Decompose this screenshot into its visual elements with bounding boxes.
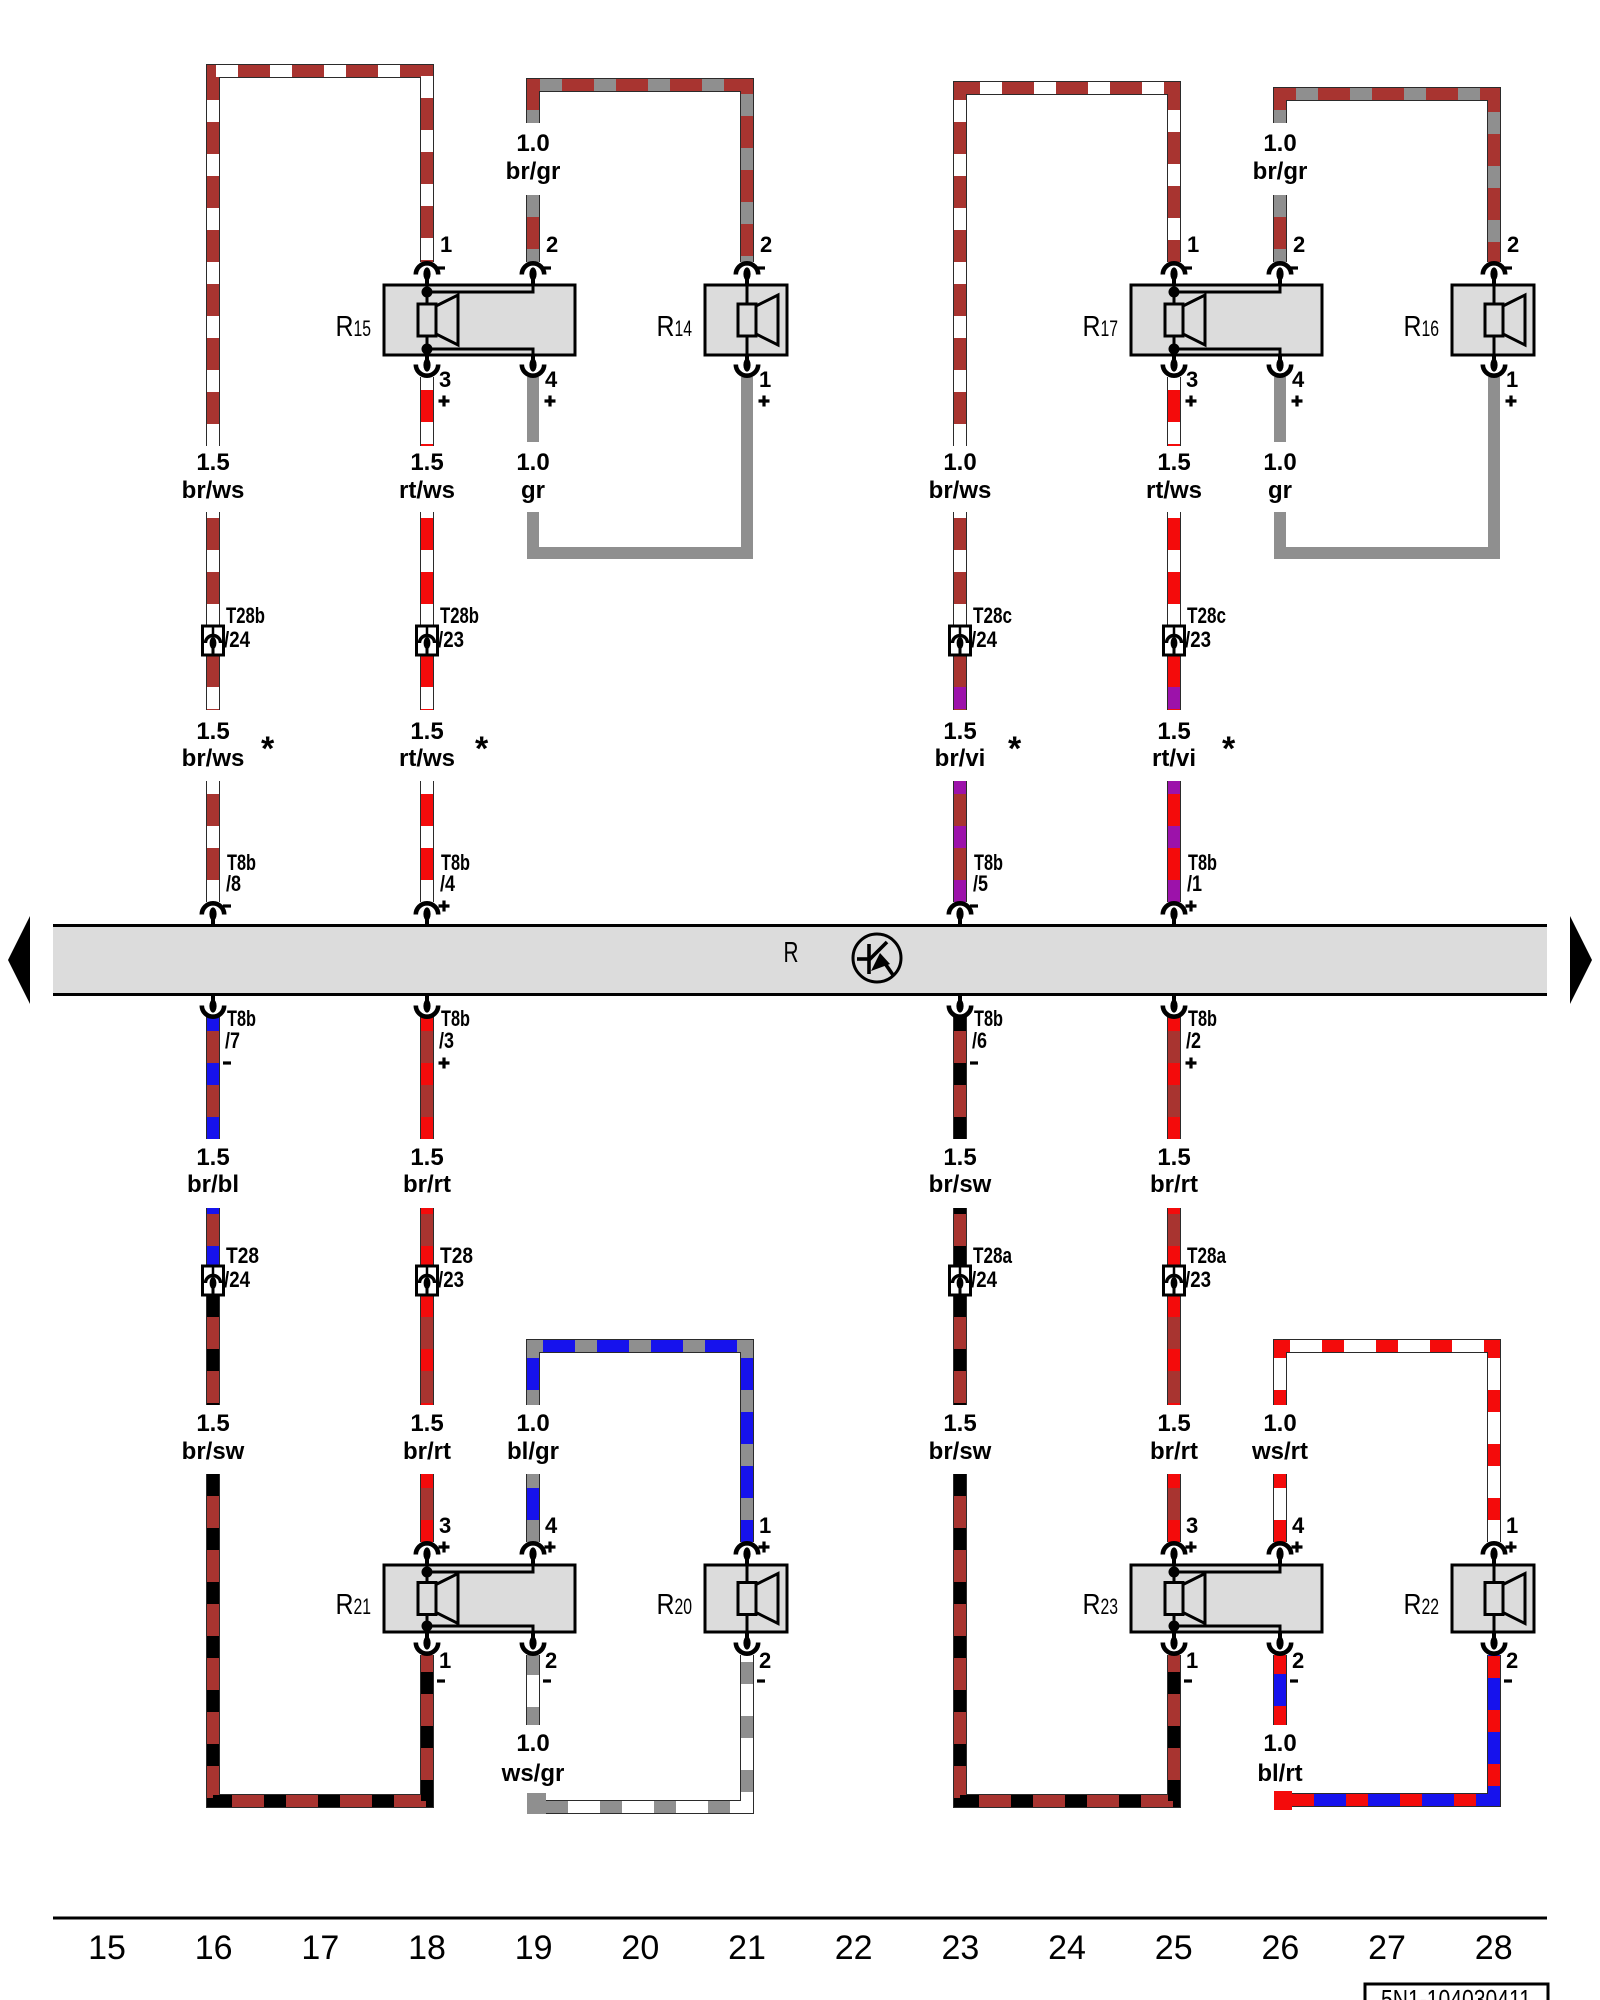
wire br/ws loop from R17 pin1 <box>960 88 1174 446</box>
part number box <box>1365 1984 1548 2000</box>
svg-text:1.5: 1.5 <box>1157 1410 1190 1437</box>
svg-text:21: 21 <box>728 1929 766 1967</box>
R17 pin 4 <box>1269 354 1291 376</box>
R15 pin 2 <box>522 263 544 286</box>
svg-text:br/ws: br/ws <box>929 477 992 504</box>
wire bl/rt loop to R22 pin2 <box>1276 1655 1494 1800</box>
inline connector T28b/23 <box>417 626 438 655</box>
svg-text:1: 1 <box>440 232 452 257</box>
wire br/bl below bus <box>206 1017 220 1139</box>
wire br/bl to T28 <box>206 1208 220 1266</box>
wire rt/ws mid upper <box>420 512 434 626</box>
R23 pin 2 <box>1269 1631 1291 1654</box>
svg-text:/6: /6 <box>972 1028 987 1053</box>
speaker R14 box <box>705 285 787 355</box>
speaker R23 box <box>1131 1565 1322 1632</box>
svg-text:gr: gr <box>521 477 545 504</box>
R16 pin 2 sign <box>1504 266 1512 269</box>
bus pin T8b/5 sign <box>970 904 978 907</box>
wire br/sw U to R21 pin1 <box>213 1474 427 1801</box>
R15 pin 1 sign <box>437 266 445 269</box>
svg-text:br/vi: br/vi <box>935 745 986 772</box>
svg-text:1.5: 1.5 <box>410 1144 443 1171</box>
wire br/sw to T28a <box>953 1208 967 1266</box>
svg-text:5N1-104030411: 5N1-104030411 <box>1381 1984 1531 2000</box>
wire rt/vi to bus <box>1167 781 1181 902</box>
R20 pin 2 sign <box>757 1679 765 1682</box>
wire gr R15 pin4 down <box>527 377 539 442</box>
wire br/gr top left loop <box>533 85 747 262</box>
svg-text:1.5: 1.5 <box>196 449 229 476</box>
R23 pin 2 sign <box>1290 1679 1298 1682</box>
svg-text:T28c: T28c <box>1187 603 1226 628</box>
R21 pin 2 <box>522 1631 544 1654</box>
svg-text:*: * <box>1008 730 1022 768</box>
wire br/rt below bus right <box>1167 1017 1181 1139</box>
svg-text:1.0: 1.0 <box>1263 449 1296 476</box>
R23 pin 3 <box>1163 1543 1185 1566</box>
svg-text:/24: /24 <box>224 1267 251 1292</box>
inline connector T28a/24 <box>950 1266 971 1295</box>
inline connector T28/23 <box>417 1266 438 1295</box>
svg-text:R17: R17 <box>1083 311 1119 343</box>
svg-text:gr: gr <box>1268 477 1292 504</box>
svg-text:rt/ws: rt/ws <box>399 745 455 772</box>
svg-text:1.5: 1.5 <box>1157 449 1190 476</box>
wire br/sw below T28 <box>206 1295 220 1405</box>
svg-text:3: 3 <box>1186 1513 1198 1538</box>
svg-text:/24: /24 <box>971 627 998 652</box>
wire br/ws right mid upper <box>953 512 967 626</box>
svg-text:T28b: T28b <box>226 603 265 628</box>
inline connector T28a/23 <box>1164 1266 1185 1295</box>
svg-text:/7: /7 <box>225 1028 240 1053</box>
svg-text:26: 26 <box>1261 1929 1299 1967</box>
wire br/rt below bus <box>420 1017 434 1139</box>
R17 pin 3 sign <box>1186 396 1197 407</box>
svg-text:R: R <box>784 937 799 969</box>
speaker R15 box <box>384 285 575 355</box>
svg-text:2: 2 <box>545 1648 557 1673</box>
R17 pin 3 <box>1163 354 1185 376</box>
R16 pin 2 <box>1483 263 1505 286</box>
svg-text:4: 4 <box>545 367 558 392</box>
svg-text:T28a: T28a <box>973 1243 1013 1268</box>
right edge arrow <box>1570 916 1592 1004</box>
speaker R22 box <box>1452 1565 1534 1632</box>
svg-text:br/bl: br/bl <box>187 1171 239 1198</box>
svg-text:3: 3 <box>1186 367 1198 392</box>
svg-text:ws/rt: ws/rt <box>1251 1438 1308 1465</box>
bus pin T8b/3 sign <box>439 1058 450 1069</box>
wire ws/gr loop to R20 pin2 <box>529 1655 747 1807</box>
wire rt/vi mid lower <box>1167 655 1181 710</box>
wire br/ws mid upper <box>206 512 220 626</box>
R23 pin 1 sign <box>1184 1679 1192 1682</box>
wire br/gr label to R15 pin2 <box>526 195 540 262</box>
bl/rt corner cap <box>1274 1791 1292 1810</box>
svg-text:/5: /5 <box>973 871 988 896</box>
svg-text:/4: /4 <box>440 871 456 896</box>
svg-text:1.0: 1.0 <box>516 449 549 476</box>
wire br/rt to R23 pin3 <box>1167 1474 1181 1542</box>
wire rt/ws mid lower <box>420 655 434 710</box>
R17 pin 2 sign <box>1290 266 1298 269</box>
svg-text:1.5: 1.5 <box>410 1410 443 1437</box>
svg-text:T28b: T28b <box>440 603 479 628</box>
speaker R17 box <box>1131 285 1322 355</box>
R23 pin 3 sign <box>1186 1542 1197 1553</box>
svg-text:1: 1 <box>759 367 771 392</box>
svg-text:br/sw: br/sw <box>182 1438 245 1465</box>
R16 pin 1 <box>1483 354 1505 376</box>
svg-text:16: 16 <box>195 1929 233 1967</box>
R14 pin 2 sign <box>757 266 765 269</box>
R23 pin 4 <box>1269 1543 1291 1566</box>
svg-text:1: 1 <box>759 1513 771 1538</box>
svg-text:rt/ws: rt/ws <box>1146 477 1202 504</box>
svg-text:*: * <box>475 730 489 768</box>
wire br/rt below T28a <box>1167 1295 1181 1405</box>
left edge arrow <box>8 916 30 1004</box>
bus pin T8b/2 sign <box>1186 1058 1197 1069</box>
svg-text:2: 2 <box>1292 1648 1304 1673</box>
svg-text:23: 23 <box>941 1929 979 1967</box>
svg-text:4: 4 <box>1292 367 1305 392</box>
R17 pin 1 <box>1163 263 1185 286</box>
R15 pin 4 <box>522 354 544 376</box>
bus pin T8b/8 <box>202 903 224 925</box>
svg-text:1: 1 <box>1506 1513 1518 1538</box>
bus pin T8b/3 <box>416 995 438 1017</box>
svg-text:/23: /23 <box>438 627 464 652</box>
svg-text:20: 20 <box>621 1929 659 1967</box>
svg-text:br/ws: br/ws <box>182 477 245 504</box>
svg-text:1: 1 <box>1187 232 1199 257</box>
svg-text:br/rt: br/rt <box>1150 1171 1198 1198</box>
R14 pin 1 sign <box>759 396 770 407</box>
bus pin T8b/1 <box>1163 903 1185 925</box>
inline connector T28c/24 <box>950 626 971 655</box>
R21 pin 4 <box>522 1543 544 1566</box>
R15 pin 3 <box>416 354 438 376</box>
wire ws/rt loop to R22 pin1 <box>1280 1346 1494 1542</box>
svg-text:17: 17 <box>301 1929 339 1967</box>
svg-text:1.5: 1.5 <box>1157 718 1190 745</box>
R15 pin 2 sign <box>543 266 551 269</box>
wire gr loop to R16 pin1 <box>1280 377 1494 553</box>
svg-text:2: 2 <box>759 1648 771 1673</box>
svg-text:2: 2 <box>1293 232 1305 257</box>
wire rt/ws to bus <box>420 781 434 902</box>
svg-text:25: 25 <box>1155 1929 1193 1967</box>
svg-text:1.0: 1.0 <box>516 1730 549 1757</box>
R17 pin 1 sign <box>1184 266 1192 269</box>
svg-text:2: 2 <box>1507 232 1519 257</box>
R20 pin 1 sign <box>759 1542 770 1553</box>
R21 pin 3 sign <box>439 1542 450 1553</box>
bus icon circled arrow <box>853 934 901 982</box>
bus pin T8b/6 sign <box>970 1061 978 1064</box>
svg-text:ws/gr: ws/gr <box>501 1760 565 1787</box>
bus pin T8b/1 sign <box>1186 901 1197 912</box>
svg-text:R20: R20 <box>657 1589 693 1621</box>
wire br/sw below T28a <box>953 1295 967 1405</box>
R22 pin 1 <box>1483 1543 1505 1566</box>
svg-text:2: 2 <box>1506 1648 1518 1673</box>
svg-text:br/rt: br/rt <box>403 1171 451 1198</box>
wire br/ws mid lower <box>206 655 220 710</box>
R14 pin 2 <box>736 263 758 286</box>
svg-text:1: 1 <box>439 1648 451 1673</box>
svg-text:R21: R21 <box>336 1589 372 1621</box>
svg-text:19: 19 <box>515 1929 553 1967</box>
svg-text:T28a: T28a <box>1187 1243 1227 1268</box>
wire rt/ws R17 pin3 down <box>1167 377 1181 446</box>
svg-text:br/rt: br/rt <box>403 1438 451 1465</box>
svg-text:15: 15 <box>88 1929 126 1967</box>
svg-text:18: 18 <box>408 1929 446 1967</box>
wire br/sw U to R23 pin1 <box>960 1474 1174 1801</box>
svg-text:1.0: 1.0 <box>1263 1730 1296 1757</box>
wire br/rt to R21 pin3 <box>420 1474 434 1542</box>
svg-text:rt/vi: rt/vi <box>1152 745 1196 772</box>
R20 pin 2 <box>736 1631 758 1654</box>
svg-text:1.0: 1.0 <box>516 130 549 157</box>
R16 pin 1 sign <box>1506 396 1517 407</box>
inline connector T28c/23 <box>1164 626 1185 655</box>
R15 pin 4 sign <box>545 396 556 407</box>
bus pin T8b/8 sign <box>223 904 231 907</box>
inline connector T28/24 <box>203 1266 224 1295</box>
wire br/sw below bus right <box>953 1017 967 1139</box>
R22 pin 1 sign <box>1506 1542 1517 1553</box>
svg-text:4: 4 <box>1292 1513 1305 1538</box>
svg-text:T28c: T28c <box>973 603 1012 628</box>
svg-text:1.5: 1.5 <box>943 718 976 745</box>
svg-text:rt/ws: rt/ws <box>399 477 455 504</box>
svg-text:1: 1 <box>1186 1648 1198 1673</box>
speaker R16 box <box>1452 285 1534 355</box>
wire gr R17 pin4 down <box>1274 377 1286 442</box>
svg-text:R23: R23 <box>1083 1589 1119 1621</box>
R23 pin 1 <box>1163 1631 1185 1654</box>
svg-text:T28: T28 <box>226 1243 259 1268</box>
R21 pin 4 sign <box>545 1542 556 1553</box>
R21 pin 2 sign <box>543 1679 551 1682</box>
wire br/ws loop from R15 pin1 <box>213 71 427 446</box>
bus pin T8b/2 <box>1163 995 1185 1017</box>
svg-text:22: 22 <box>835 1929 873 1967</box>
svg-text:/23: /23 <box>1185 627 1211 652</box>
wire br/gr top right loop <box>1280 94 1494 262</box>
svg-text:/2: /2 <box>1186 1028 1201 1053</box>
wire br/ws to bus <box>206 781 220 902</box>
bus pin T8b/4 sign <box>439 901 450 912</box>
svg-text:R16: R16 <box>1404 311 1440 343</box>
R17 pin 2 <box>1269 263 1291 286</box>
speaker R21 box <box>384 1565 575 1632</box>
wire bl/gr loop to R20 pin1 <box>533 1346 747 1542</box>
bus pin T8b/5 <box>949 903 971 925</box>
svg-text:3: 3 <box>439 367 451 392</box>
svg-text:br/sw: br/sw <box>929 1171 992 1198</box>
svg-text:/8: /8 <box>226 871 241 896</box>
bus bar R <box>53 926 1547 995</box>
R21 pin 1 sign <box>437 1679 445 1682</box>
R14 pin 1 <box>736 354 758 376</box>
svg-text:/24: /24 <box>971 1267 998 1292</box>
svg-text:1.5: 1.5 <box>1157 1144 1190 1171</box>
inline connector T28b/24 <box>203 626 224 655</box>
wire br/rt to T28 <box>420 1208 434 1266</box>
bus pin T8b/6 <box>949 995 971 1017</box>
svg-text:27: 27 <box>1368 1929 1406 1967</box>
svg-text:1.5: 1.5 <box>943 1144 976 1171</box>
wire br/vi mid lower <box>953 655 967 710</box>
svg-text:br/gr: br/gr <box>1253 158 1308 185</box>
svg-text:R14: R14 <box>657 311 693 343</box>
svg-text:br/ws: br/ws <box>182 745 245 772</box>
R15 pin 3 sign <box>439 396 450 407</box>
wire bl/gr label to R21 pin4 <box>526 1474 540 1542</box>
wire gr loop to R14 pin1 <box>533 377 747 553</box>
bus pin T8b/7 <box>202 995 224 1017</box>
svg-text:/3: /3 <box>439 1028 454 1053</box>
wire br/rt below T28 <box>420 1295 434 1405</box>
svg-text:28: 28 <box>1475 1929 1513 1967</box>
bus pin T8b/7 sign <box>223 1061 231 1064</box>
R22 pin 2 <box>1483 1631 1505 1654</box>
svg-text:R22: R22 <box>1404 1589 1440 1621</box>
svg-text:2: 2 <box>546 232 558 257</box>
R23 pin 4 sign <box>1292 1542 1303 1553</box>
svg-text:1.0: 1.0 <box>1263 130 1296 157</box>
wire ws/gr R21 pin2 down <box>526 1655 540 1725</box>
svg-text:R15: R15 <box>336 311 372 343</box>
svg-text:1: 1 <box>1506 367 1518 392</box>
svg-text:/1: /1 <box>1187 871 1202 896</box>
svg-text:1.5: 1.5 <box>196 1410 229 1437</box>
ws/gr corner cap <box>527 1793 546 1814</box>
svg-text:2: 2 <box>760 232 772 257</box>
svg-text:3: 3 <box>439 1513 451 1538</box>
R22 pin 2 sign <box>1504 1679 1512 1682</box>
wire bl/rt R23 pin2 down <box>1273 1655 1287 1725</box>
svg-text:T28: T28 <box>440 1243 473 1268</box>
svg-text:1.5: 1.5 <box>410 449 443 476</box>
svg-text:/24: /24 <box>224 627 251 652</box>
svg-text:*: * <box>261 730 275 768</box>
svg-text:/23: /23 <box>1185 1267 1211 1292</box>
svg-text:br/rt: br/rt <box>1150 1438 1198 1465</box>
svg-text:1.0: 1.0 <box>943 449 976 476</box>
R21 pin 3 <box>416 1543 438 1566</box>
svg-text:1.5: 1.5 <box>196 718 229 745</box>
wire br/rt to T28a <box>1167 1208 1181 1266</box>
svg-text:br/sw: br/sw <box>929 1438 992 1465</box>
svg-text:bl/gr: bl/gr <box>507 1438 559 1465</box>
ruler line <box>53 1917 1547 1920</box>
svg-text:1.5: 1.5 <box>196 1144 229 1171</box>
R15 pin 1 <box>416 263 438 286</box>
R21 pin 1 <box>416 1631 438 1654</box>
wire rt/ws right mid upper <box>1167 512 1181 626</box>
wire br/gr label to R17 pin2 <box>1273 195 1287 262</box>
wire br/vi to bus <box>953 781 967 902</box>
svg-text:/23: /23 <box>438 1267 464 1292</box>
svg-text:4: 4 <box>545 1513 558 1538</box>
R20 pin 1 <box>736 1543 758 1566</box>
svg-text:24: 24 <box>1048 1929 1086 1967</box>
speaker R20 box <box>705 1565 787 1632</box>
svg-text:br/gr: br/gr <box>506 158 561 185</box>
wire rt/ws R15 pin3 down <box>420 377 434 446</box>
svg-text:1.0: 1.0 <box>516 1410 549 1437</box>
svg-text:*: * <box>1222 730 1236 768</box>
wire ws/rt label to R23 pin4 <box>1273 1474 1287 1542</box>
svg-text:bl/rt: bl/rt <box>1257 1760 1302 1787</box>
bus pin T8b/4 <box>416 903 438 925</box>
svg-text:1.5: 1.5 <box>943 1410 976 1437</box>
svg-text:1.0: 1.0 <box>1263 1410 1296 1437</box>
svg-text:1.5: 1.5 <box>410 718 443 745</box>
R17 pin 4 sign <box>1292 396 1303 407</box>
